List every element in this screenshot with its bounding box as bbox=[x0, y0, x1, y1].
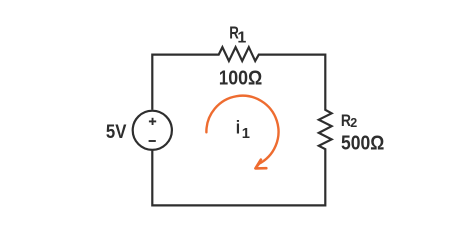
svg-text:1: 1 bbox=[237, 30, 246, 47]
svg-text:i: i bbox=[236, 117, 240, 138]
svg-text:00Ω: 00Ω bbox=[228, 67, 262, 89]
svg-text:1: 1 bbox=[242, 126, 250, 142]
svg-text:5V: 5V bbox=[106, 121, 127, 143]
svg-text:2: 2 bbox=[350, 116, 357, 130]
svg-text:500Ω: 500Ω bbox=[341, 132, 384, 154]
svg-text:1: 1 bbox=[219, 67, 228, 89]
